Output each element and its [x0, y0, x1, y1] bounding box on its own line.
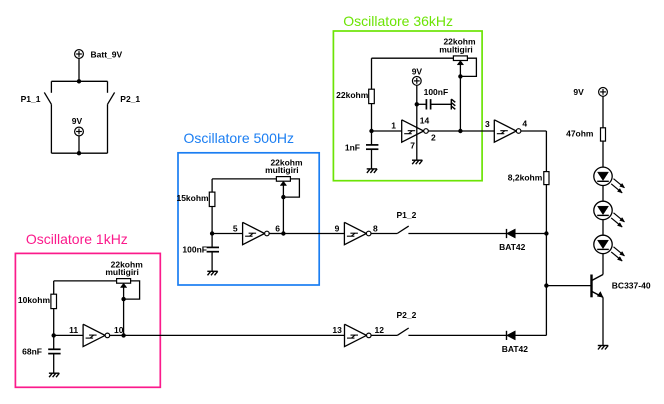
svg-text:multigiri: multigiri	[105, 267, 139, 277]
svg-text:Oscillatore 1kHz: Oscillatore 1kHz	[26, 231, 128, 247]
svg-text:6: 6	[275, 223, 280, 233]
svg-text:8,2kohm: 8,2kohm	[508, 173, 543, 183]
svg-text:Batt_9V: Batt_9V	[91, 50, 123, 60]
svg-text:10kohm: 10kohm	[18, 295, 51, 305]
svg-text:22kohm: 22kohm	[336, 90, 369, 100]
svg-text:9V: 9V	[573, 87, 584, 97]
svg-text:P1_1: P1_1	[21, 94, 41, 104]
svg-text:P2_2: P2_2	[397, 310, 417, 320]
svg-text:BC337-40: BC337-40	[612, 281, 651, 291]
svg-text:BAT42: BAT42	[502, 344, 529, 354]
svg-text:9V: 9V	[412, 67, 423, 77]
svg-text:multigiri: multigiri	[265, 165, 299, 175]
svg-text:68nF: 68nF	[22, 347, 42, 357]
svg-text:9: 9	[335, 223, 340, 233]
svg-text:P2_1: P2_1	[120, 94, 140, 104]
svg-text:47ohm: 47ohm	[566, 129, 594, 139]
svg-text:P1_2: P1_2	[397, 210, 417, 220]
svg-text:1nF: 1nF	[345, 142, 360, 152]
svg-text:2: 2	[431, 132, 436, 142]
svg-text:5: 5	[233, 223, 238, 233]
svg-text:3: 3	[485, 119, 490, 129]
svg-text:7: 7	[410, 141, 415, 151]
svg-text:100nF: 100nF	[424, 87, 449, 97]
svg-text:15kohm: 15kohm	[176, 193, 209, 203]
svg-text:1: 1	[391, 120, 396, 130]
svg-text:11: 11	[69, 325, 78, 335]
svg-text:8: 8	[373, 223, 378, 233]
svg-text:Oscillatore 36kHz: Oscillatore 36kHz	[343, 13, 453, 29]
svg-text:BAT42: BAT42	[499, 242, 526, 252]
svg-text:13: 13	[332, 325, 342, 335]
svg-text:Oscillatore 500Hz: Oscillatore 500Hz	[184, 130, 295, 146]
svg-text:multigiri: multigiri	[439, 44, 473, 54]
svg-text:14: 14	[420, 115, 430, 125]
svg-text:9V: 9V	[72, 116, 83, 126]
svg-text:12: 12	[375, 325, 385, 335]
svg-text:100nF: 100nF	[182, 245, 207, 255]
svg-text:4: 4	[522, 118, 527, 128]
